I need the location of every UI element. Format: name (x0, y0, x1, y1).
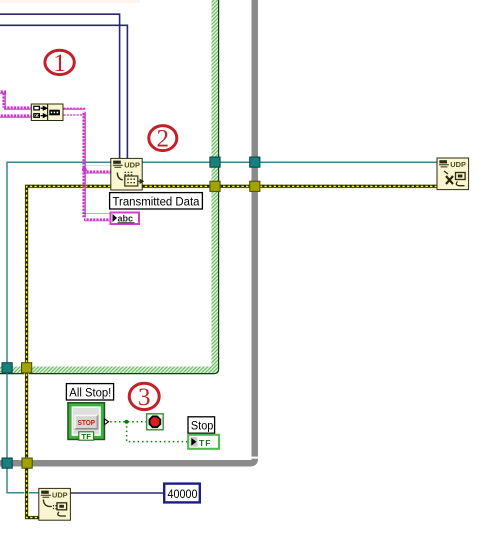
svg-text:40000: 40000 (168, 487, 198, 501)
wire: boolean (green dotted) stop button to conditional terminal (106, 421, 147, 423)
wire: numeric to UDP Write (navy) line 2 (0, 25, 127, 158)
while loop conditional terminal (stop if true) (147, 414, 164, 430)
label: Transmitted Data (110, 193, 203, 209)
label: Stop (188, 417, 215, 433)
tunnel: conn ID through while loop border (250, 157, 260, 167)
svg-text:Stop: Stop (191, 419, 214, 433)
tunnel: conn ID through inner loop bottom (2, 363, 12, 373)
svg-text:UDP: UDP (124, 161, 140, 170)
inner loop dark outer edge (0, 0, 219, 374)
tunnel: error through while loop border (250, 181, 260, 191)
svg-text:Transmitted Data: Transmitted Data (113, 194, 200, 208)
wire: string input A (pink wavy) into concatenate (0, 88, 6, 96)
label: All Stop! (66, 384, 113, 400)
UDP Write function (111, 158, 144, 190)
svg-text:TF: TF (199, 438, 212, 448)
stop button boolean control terminal (67, 402, 108, 441)
junction dot on string wire (82, 167, 87, 172)
while loop corner notch (251, 457, 258, 459)
red callout circle 1 (45, 50, 74, 77)
boolean indicator terminal (TF) (188, 435, 219, 449)
tunnel: error through while loop bottom (22, 458, 32, 468)
wire: numeric constant to UDP Write (navy) line 1 (0, 14, 120, 158)
wire: boolean branch down to Stop indicator (127, 422, 188, 442)
inner loop border (green hatched), bottom band (0, 367, 219, 374)
wire: error cluster (olive hatched) horizontal to UDP Close and down to UDP Open (27, 186, 437, 517)
svg-text:UDP: UDP (450, 160, 466, 169)
svg-text:UDP: UDP (52, 491, 68, 500)
inner loop border (green hatched), vertical band (212, 0, 219, 374)
red callout circle 2 (149, 126, 177, 153)
svg-text:abc: abc (118, 214, 134, 224)
tunnel: conn ID through while loop bottom (2, 458, 12, 468)
outer while loop border (gray), right edge and bottom edge (0, 0, 258, 467)
wire: port 40000 to UDP Open (navy) (71, 492, 165, 494)
svg-text:TF: TF (81, 432, 91, 441)
svg-text:1: 1 (53, 50, 66, 77)
wire: UDP connection ID (teal) main horizontal to UDP Close (7, 162, 437, 493)
wire: concatenated string out (pink) to UDP Write and indicator (63, 108, 86, 116)
UDP Open function (39, 488, 71, 520)
junction dot on boolean wire (125, 420, 129, 424)
svg-text:3: 3 (138, 384, 151, 411)
faint scan tint at top edge (0, 0, 140, 3)
svg-text:STOP: STOP (78, 420, 96, 427)
red callout circle 3 (129, 383, 159, 411)
tunnel: error through inner loop bottom (22, 363, 32, 373)
UDP Close function (437, 158, 469, 190)
svg-text:2: 2 (157, 126, 170, 153)
wire: string input B (pink wavy) into concatenate (0, 111, 32, 119)
concatenate strings function (31, 104, 63, 121)
string indicator terminal (abc) (111, 213, 140, 225)
tunnel: error through inner loop border (210, 181, 220, 191)
tunnel: conn ID through inner loop border (210, 157, 220, 167)
numeric constant 40000 (164, 484, 200, 503)
svg-text:All Stop!: All Stop! (69, 385, 111, 399)
